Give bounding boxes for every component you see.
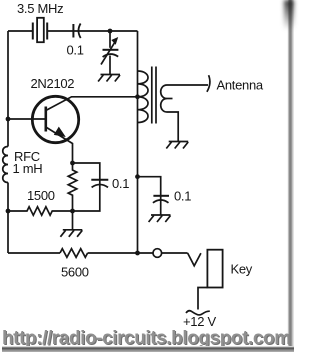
label 1 mH xyxy=(13,161,43,176)
capacitor C3 0.1 (emitter bypass) xyxy=(73,163,109,211)
transformer T1 core xyxy=(152,67,156,124)
wire top rail from left corner through crystal and C1 to right corner xyxy=(8,30,138,32)
label Key xyxy=(231,262,253,277)
frame shadow bottom xyxy=(2,346,294,352)
capacitor C1 0.1 (series) xyxy=(73,24,80,39)
ground (below transformer secondary) xyxy=(166,142,188,149)
node emitter junction xyxy=(70,161,75,166)
variable capacitor C2 xyxy=(101,31,118,74)
node bottom rail junction xyxy=(135,251,140,256)
label +12 V xyxy=(183,314,216,329)
label RFC xyxy=(14,149,40,164)
ground (below capacitor C4) xyxy=(149,215,171,222)
transformer T1 primary winding xyxy=(138,71,149,123)
capacitor C4 0.1 (decoupling) xyxy=(138,177,170,215)
label 0.1 (C3) xyxy=(112,176,129,191)
svg-text:Key: Key xyxy=(231,262,253,277)
svg-text:0.1: 0.1 xyxy=(67,43,84,58)
wire base lead xyxy=(8,118,45,120)
svg-text:5600: 5600 xyxy=(61,265,89,280)
svg-text:1 mH: 1 mH xyxy=(13,161,43,176)
wire left rail xyxy=(7,31,9,253)
svg-text:3.5 MHz: 3.5 MHz xyxy=(17,1,63,16)
svg-text:0.1: 0.1 xyxy=(174,189,191,204)
node 1500 row junction on left rail xyxy=(6,209,11,214)
watermark http://radio-circuits.blogspot.com xyxy=(1,327,292,350)
svg-text:+12 V: +12 V xyxy=(183,314,216,329)
frame shadow right xyxy=(286,0,294,352)
ground (below variable capacitor C2) xyxy=(98,75,120,82)
node collector tap junction on primary xyxy=(135,94,140,99)
wire bottom rail with 5600 xyxy=(8,252,60,254)
transistor Q1 emitter with arrow xyxy=(46,127,73,163)
wire secondary top lead to antenna xyxy=(167,84,208,86)
node base junction on left rail xyxy=(6,117,11,122)
key jack plug body xyxy=(207,250,222,288)
antenna connection arc xyxy=(207,75,210,92)
transistor Q1 base bar xyxy=(44,107,47,132)
supply squiggle xyxy=(186,311,210,315)
resistor R2 1500 (horizontal) xyxy=(8,207,73,215)
wire secondary bottom lead xyxy=(167,112,178,141)
wire key plug to supply xyxy=(198,288,207,310)
svg-text:2N2102: 2N2102 xyxy=(31,76,75,91)
wire right rail (top corner down to bottom wire) xyxy=(137,31,139,253)
wire 5600 to key terminal xyxy=(88,252,153,254)
node emitter resistor bottom junction xyxy=(70,209,75,214)
svg-text:0.1: 0.1 xyxy=(112,176,129,191)
label 1500 xyxy=(27,188,55,203)
label 3.5 MHz xyxy=(17,1,63,16)
wire terminal to key contact xyxy=(162,252,188,254)
resistor R1 (emitter, vertical) xyxy=(68,163,77,211)
label 2N2102 xyxy=(31,76,75,91)
crystal Y1 3.5 MHz xyxy=(33,18,47,42)
label 5600 xyxy=(61,265,89,280)
svg-text:1500: 1500 xyxy=(27,188,55,203)
label 0.1 (C4) xyxy=(174,189,191,204)
transistor Q1 2N2102 circle xyxy=(32,96,78,142)
svg-text:Antenna: Antenna xyxy=(217,78,264,93)
resistor R3 5600 xyxy=(60,249,88,258)
node A junction top (crystal/C1/C2 variable) xyxy=(108,29,113,34)
ground (below emitter node) xyxy=(60,211,82,237)
wire collector to transformer tap xyxy=(46,97,138,111)
inductor RFC 1 mH on left rail xyxy=(3,147,8,183)
terminal (open circle) xyxy=(153,249,162,258)
transformer T1 secondary winding xyxy=(161,85,173,112)
label 0.1 (C1) xyxy=(67,43,84,58)
label Antenna xyxy=(217,78,264,93)
node decoupling cap junction on right rail xyxy=(135,174,140,179)
key jack spring contact V xyxy=(188,253,201,266)
